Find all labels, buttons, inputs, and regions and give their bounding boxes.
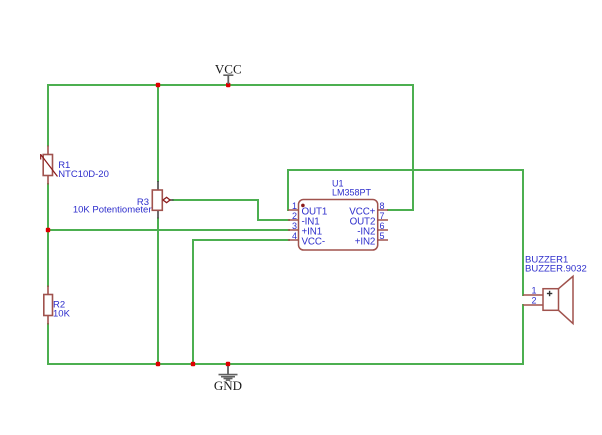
svg-text:VCC-: VCC- [302, 237, 326, 248]
svg-text:10K Potentiometer: 10K Potentiometer [73, 205, 152, 216]
svg-text:5: 5 [380, 231, 385, 241]
svg-text:+IN2: +IN2 [355, 237, 376, 248]
svg-text:BUZZER.9032: BUZZER.9032 [525, 264, 587, 275]
svg-text:GND: GND [214, 378, 242, 393]
svg-text:7: 7 [380, 211, 385, 221]
svg-text:10K: 10K [53, 309, 71, 320]
svg-text:NTC10D-20: NTC10D-20 [58, 169, 109, 180]
svg-text:1: 1 [292, 201, 297, 211]
svg-text:8: 8 [380, 201, 385, 211]
svg-text:VCC: VCC [215, 62, 242, 77]
svg-text:LM358PT: LM358PT [332, 188, 372, 198]
svg-text:6: 6 [380, 221, 385, 231]
svg-text:4: 4 [292, 231, 297, 241]
svg-text:2: 2 [531, 296, 536, 306]
svg-text:1: 1 [531, 286, 536, 296]
svg-text:3: 3 [292, 221, 297, 231]
svg-text:2: 2 [292, 211, 297, 221]
